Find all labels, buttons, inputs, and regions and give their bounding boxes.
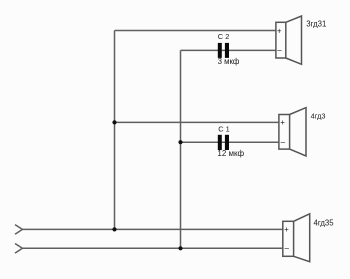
wire: right vertical bus from C2 branch to input - wire (180, 50, 182, 248)
svg-text:+: + (280, 118, 285, 127)
wire: input top horizontal to 4гд35 plus terminal (22, 228, 282, 230)
speaker BA1 3гд31 (276, 16, 302, 64)
speaker BA3 4гд35 (283, 214, 310, 262)
svg-text:4гд3: 4гд3 (311, 111, 326, 120)
svg-text:12 мкф: 12 мкф (217, 149, 244, 158)
svg-text:3 мкф: 3 мкф (218, 57, 240, 66)
wire: input bottom horizontal to 4гд35 minus terminal (22, 247, 282, 249)
wire: middle horizontal to 4гд3 plus terminal (115, 121, 279, 123)
speaker BA2 4гд3 (279, 108, 306, 156)
svg-text:–: – (285, 244, 290, 253)
svg-text:C 1: C 1 (218, 124, 230, 133)
svg-text:4гд35: 4гд35 (314, 219, 335, 228)
svg-text:–: – (281, 138, 286, 147)
capacitor C1 plates (218, 135, 229, 150)
input terminal chevron (top) (15, 225, 22, 235)
wire: left vertical bus from top corner to input + wire (114, 31, 116, 230)
input terminal chevron (bottom) (15, 244, 22, 254)
svg-text:+: + (277, 26, 282, 35)
svg-text:C 2: C 2 (218, 32, 230, 41)
junction node: left bus / middle branch (112, 120, 116, 124)
junction node: right bus / C1 branch (178, 140, 182, 144)
svg-text:+: + (284, 225, 289, 234)
capacitor C2 plates (218, 43, 229, 58)
svg-text:3гд31: 3гд31 (306, 20, 326, 29)
junction node: left bus / input top wire (112, 227, 116, 231)
svg-text:–: – (277, 46, 282, 55)
wire: C2 branch horizontal to 3гд31 minus terminal (181, 49, 276, 51)
wire: C1 branch horizontal to 4гд3 minus terminal (181, 141, 279, 143)
wire: top horizontal to 3гд31 plus terminal (115, 30, 276, 32)
junction node: right bus / input bottom wire (178, 246, 182, 250)
